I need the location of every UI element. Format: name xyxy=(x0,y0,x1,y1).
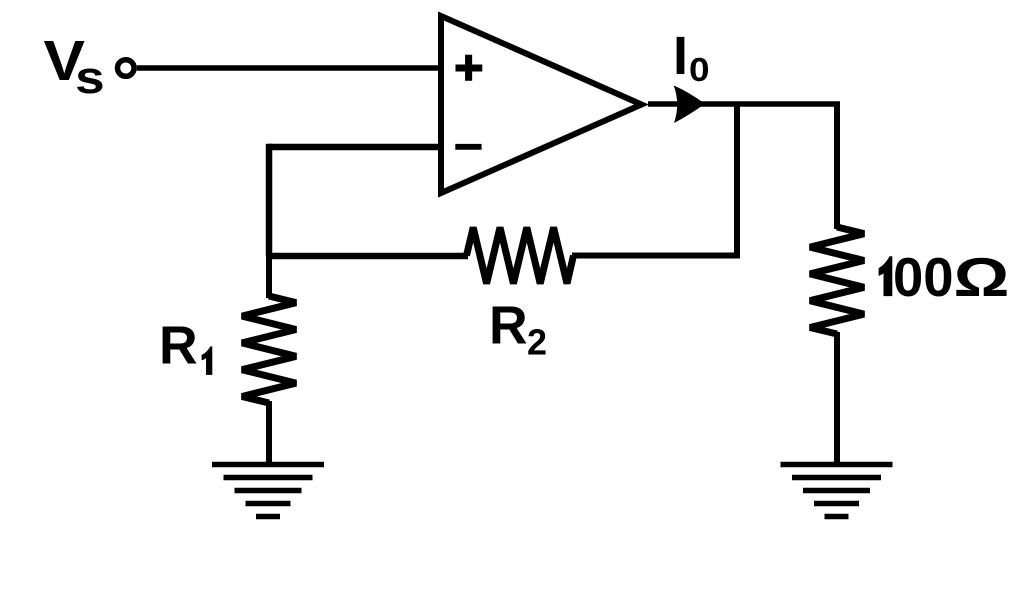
svg-text:2: 2 xyxy=(527,321,547,362)
svg-text:s: s xyxy=(75,53,105,103)
svg-text:I: I xyxy=(673,26,688,86)
svg-text:0: 0 xyxy=(689,52,710,89)
svg-text:Ω: Ω xyxy=(954,247,1010,308)
svg-text:R: R xyxy=(159,316,198,375)
svg-text:00: 00 xyxy=(893,247,954,308)
svg-text:R: R xyxy=(489,297,528,356)
